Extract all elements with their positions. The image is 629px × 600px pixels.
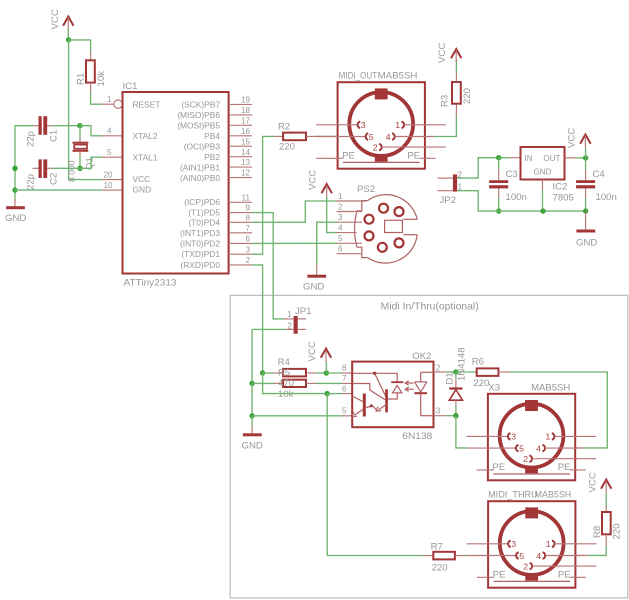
wire junction to XTAL1 pin 5 xyxy=(80,157,102,168)
svg-text:1: 1 xyxy=(458,182,463,191)
power VCC (above PS2) xyxy=(308,170,332,198)
node junction JP1 rail/R5 xyxy=(249,381,254,386)
wire R8 to MIDI THRU pin 4 xyxy=(605,534,607,546)
svg-text:(AIN1)PB1: (AIN1)PB1 xyxy=(180,162,220,172)
svg-text:3: 3 xyxy=(338,213,343,222)
svg-text:15: 15 xyxy=(241,137,251,146)
svg-text:8.000: 8.000 xyxy=(67,160,77,182)
svg-text:9: 9 xyxy=(245,204,250,213)
svg-text:(OCI)PB3: (OCI)PB3 xyxy=(184,141,221,151)
wire RXD to OK2 pin 6 xyxy=(263,373,328,394)
svg-text:JP1: JP1 xyxy=(295,306,312,317)
svg-text:C3: C3 xyxy=(506,169,518,180)
svg-text:IC1: IC1 xyxy=(123,81,138,92)
node junction rail/7805 GND xyxy=(540,208,545,213)
wire junction to XTAL2 pin 4 xyxy=(80,126,102,136)
svg-text:GND: GND xyxy=(133,185,152,195)
IC1 left pin names xyxy=(133,100,161,195)
svg-text:R2: R2 xyxy=(278,122,290,133)
wire C3 to ground rail xyxy=(498,188,500,199)
svg-text:R5: R5 xyxy=(278,367,290,378)
svg-text:R7: R7 xyxy=(431,542,443,553)
wire junction down to C3 xyxy=(498,158,500,170)
svg-text:MAB5SH: MAB5SH xyxy=(378,71,418,82)
svg-text:GND: GND xyxy=(303,282,324,293)
svg-text:2: 2 xyxy=(436,364,441,373)
wire VCC to PS2 pin 4 xyxy=(327,197,337,233)
wire junction to OK2 pin 8 xyxy=(326,372,342,374)
svg-text:GND: GND xyxy=(5,213,26,224)
svg-text:5: 5 xyxy=(338,234,343,243)
wire C1 to XTAL2 junction xyxy=(53,125,80,127)
node junction pin5/GND xyxy=(249,413,254,418)
wire VCC to junction xyxy=(67,29,69,40)
svg-text:1: 1 xyxy=(107,95,112,104)
svg-text:19: 19 xyxy=(241,96,251,105)
svg-text:22p: 22p xyxy=(26,131,37,147)
node junction VCC/R1 xyxy=(66,37,71,42)
svg-text:10k: 10k xyxy=(96,71,107,87)
node junction OUT/C4/VCC xyxy=(583,155,588,160)
connector JP1 jumper xyxy=(285,306,312,334)
svg-text:VCC: VCC xyxy=(308,170,319,190)
diode D1 1N4148 xyxy=(444,347,467,415)
svg-text:PB4: PB4 xyxy=(204,131,220,141)
wire junction to OK2 pin 6 xyxy=(327,393,342,395)
wire R3 top to VCC xyxy=(455,73,457,83)
svg-text:(TXD)PD1: (TXD)PD1 xyxy=(181,249,220,259)
node junction rail/C3 xyxy=(496,208,501,213)
svg-text:PB2: PB2 xyxy=(204,152,220,162)
ground GND (OK2) xyxy=(242,416,263,452)
wire R2 to MIDI OUT pin 5 xyxy=(306,135,317,137)
svg-text:ATTiny2313: ATTiny2313 xyxy=(124,278,177,289)
wire VCC to junction xyxy=(585,148,587,159)
svg-text:OK2: OK2 xyxy=(412,351,431,362)
svg-text:12: 12 xyxy=(241,169,251,178)
wire junction to OK2 pin 5 xyxy=(252,415,342,417)
svg-text:GND: GND xyxy=(242,441,263,452)
node optional section frame xyxy=(230,295,628,598)
wire rail to IC1 pin 10 xyxy=(15,189,102,191)
wire PS2 pin 3 to GND xyxy=(317,222,337,265)
node junction pin3/D1/X3 xyxy=(453,413,458,418)
svg-text:100n: 100n xyxy=(506,192,527,203)
svg-text:D1: D1 xyxy=(444,372,455,384)
node junction VCC/R4/pin8 xyxy=(324,370,329,375)
resistor R4 xyxy=(278,357,306,377)
svg-text:OUT: OUT xyxy=(543,154,560,163)
node junction pin6/THRU tap xyxy=(325,391,330,396)
connector MIDI_THRU MAB5SH xyxy=(467,489,597,587)
svg-text:XTAL1: XTAL1 xyxy=(133,152,158,162)
wire JP2 pin 1 to ground rail xyxy=(457,191,585,211)
svg-text:VCC: VCC xyxy=(50,9,61,29)
IC1 right pin names xyxy=(177,100,220,270)
svg-text:4: 4 xyxy=(338,223,343,232)
svg-text:R6: R6 xyxy=(472,357,484,368)
svg-text:100n: 100n xyxy=(596,192,617,203)
svg-text:VCC: VCC xyxy=(307,341,318,361)
svg-text:(T0)PD4: (T0)PD4 xyxy=(188,217,220,227)
svg-text:(INT1)PD3: (INT1)PD3 xyxy=(180,228,220,238)
optocoupler OK2 6N138 xyxy=(342,351,441,442)
wire PD4 to PS2 pin 1 xyxy=(252,201,337,222)
svg-text:XTAL2: XTAL2 xyxy=(133,131,158,141)
ground GND (left rail) xyxy=(5,199,26,224)
svg-text:1: 1 xyxy=(338,192,343,201)
svg-text:GND: GND xyxy=(576,238,597,249)
pin 1 stub with inversion bubble xyxy=(102,95,123,108)
svg-text:14: 14 xyxy=(241,148,251,157)
resistor R1 xyxy=(76,60,108,86)
svg-text:6N138: 6N138 xyxy=(402,431,432,442)
svg-text:MAB5SH: MAB5SH xyxy=(535,489,572,500)
wire junction down to X3 pin 5 xyxy=(456,416,466,448)
wire 7805 GND pin to rail xyxy=(542,180,544,191)
wire R4 to VCC junction xyxy=(306,372,316,374)
svg-text:(RXD)PD0: (RXD)PD0 xyxy=(180,260,220,270)
svg-text:R8: R8 xyxy=(592,526,603,538)
wire MIDI OUT pin 4 to R3 xyxy=(434,115,456,137)
node junction rail/C4/GND xyxy=(583,208,588,213)
svg-text:3: 3 xyxy=(436,407,441,416)
svg-text:R4: R4 xyxy=(278,357,291,368)
svg-text:GND: GND xyxy=(534,168,552,177)
wire THRU tap down to R7 xyxy=(327,394,423,556)
resistor R7 xyxy=(431,542,455,574)
svg-text:6: 6 xyxy=(342,384,347,393)
voltage regulator IC2 7805 xyxy=(521,147,574,204)
svg-text:7805: 7805 xyxy=(553,193,574,204)
wire JP1 rail down to OK2 pin 5 junction xyxy=(251,383,253,415)
ground GND (below PS2) xyxy=(303,275,326,293)
svg-text:R3: R3 xyxy=(440,95,451,107)
node junction XTAL1/C2/Q1 xyxy=(77,166,82,171)
wire C2 to junction xyxy=(53,167,80,169)
node junction rail/GND pin 10 xyxy=(12,187,17,192)
wire junction to R4 xyxy=(263,372,274,374)
power VCC (above R8) xyxy=(588,472,612,493)
svg-text:7: 7 xyxy=(245,224,250,233)
svg-text:VCC: VCC xyxy=(588,472,599,492)
svg-text:6: 6 xyxy=(338,245,343,254)
wire OK2 pin 2 to D1 junction xyxy=(434,371,446,373)
svg-text:1N4148: 1N4148 xyxy=(457,347,468,381)
wire R6 to X3 pin 4 xyxy=(498,371,510,373)
svg-text:(AIN0)PB0: (AIN0)PB0 xyxy=(180,173,220,183)
svg-text:VCC: VCC xyxy=(567,128,578,148)
wire C4 to rail xyxy=(585,188,587,199)
svg-text:MAB5SH: MAB5SH xyxy=(531,383,570,394)
resistor R6 xyxy=(472,357,499,390)
power VCC (above C4) xyxy=(567,128,591,148)
wire VCC to R8 xyxy=(605,493,607,507)
svg-text:470: 470 xyxy=(278,378,294,389)
svg-text:220: 220 xyxy=(612,523,623,539)
wire R1 bottom to IC1 pin 1 xyxy=(90,83,92,94)
wire VCC to junction xyxy=(325,362,327,373)
svg-text:R1: R1 xyxy=(76,73,87,85)
svg-text:(ICP)PD6: (ICP)PD6 xyxy=(184,197,220,207)
node junction pin2/D1/R6 xyxy=(453,369,458,374)
capacitor C3 xyxy=(489,169,527,203)
svg-text:5: 5 xyxy=(107,148,112,157)
connector MIDI_OUT MAB5SH xyxy=(316,71,446,169)
svg-text:22p: 22p xyxy=(26,174,37,190)
wire junction to R6 xyxy=(456,371,476,373)
svg-text:4: 4 xyxy=(107,127,112,136)
wire junction to R1 top xyxy=(69,40,91,52)
wire left rail to C1 xyxy=(15,126,33,200)
resistor R2 xyxy=(278,122,306,153)
svg-text:20: 20 xyxy=(104,171,114,180)
wire R5 to OK2 pin 7 xyxy=(306,382,316,384)
svg-text:13: 13 xyxy=(241,158,251,167)
svg-text:18: 18 xyxy=(241,106,251,115)
svg-text:220: 220 xyxy=(279,142,295,153)
svg-text:MIDI_THRU: MIDI_THRU xyxy=(488,489,538,500)
wire junction to R5 xyxy=(252,382,274,384)
wire PD5 down to JP1 pin 1 xyxy=(252,213,285,319)
svg-text:7: 7 xyxy=(342,374,347,383)
wire crystal to XTAL1 junction xyxy=(79,151,81,155)
svg-text:IC2: IC2 xyxy=(553,182,568,193)
svg-text:VCC: VCC xyxy=(133,174,151,184)
IC1 right pin stubs PB7-PB0 xyxy=(229,104,252,265)
resistor R8 xyxy=(592,512,623,540)
svg-text:C1: C1 xyxy=(49,130,60,142)
svg-text:220: 220 xyxy=(432,563,448,574)
power VCC (above OK2) xyxy=(307,341,331,362)
connector X3 MAB5SH xyxy=(467,383,597,481)
svg-text:(INT0)PD2: (INT0)PD2 xyxy=(180,238,220,248)
connector PS2 mini-DIN xyxy=(337,184,418,263)
svg-text:Midi In/Thru(optional): Midi In/Thru(optional) xyxy=(381,302,479,313)
svg-text:C4: C4 xyxy=(593,169,606,180)
wire junction down to C4 xyxy=(585,158,587,171)
svg-text:1: 1 xyxy=(287,310,292,319)
svg-text:11: 11 xyxy=(242,193,251,202)
capacitor C4 xyxy=(576,169,617,203)
IC1 right pin numbers xyxy=(241,96,251,266)
wire PD0 RXD down to R4 junction xyxy=(252,265,263,373)
svg-text:(SCK)PB7: (SCK)PB7 xyxy=(181,100,220,110)
svg-text:C2: C2 xyxy=(49,173,60,185)
svg-text:2: 2 xyxy=(245,256,250,265)
power VCC (top left) xyxy=(50,9,74,30)
resistor R3 xyxy=(440,82,474,107)
svg-text:10k: 10k xyxy=(278,389,294,400)
svg-text:8: 8 xyxy=(245,213,250,222)
node junction RXD/R4 xyxy=(260,370,265,375)
svg-text:RESET: RESET xyxy=(133,100,161,110)
wire PD2 to PS2 pin 5 xyxy=(252,242,337,244)
svg-text:X3: X3 xyxy=(488,383,500,394)
capacitor C2 xyxy=(26,159,60,190)
svg-text:6: 6 xyxy=(245,235,250,244)
connector JP2 jumper xyxy=(438,170,463,206)
wire R7 to MIDI THRU pin 5 xyxy=(455,555,465,557)
svg-text:220: 220 xyxy=(462,88,473,104)
resistor R5 xyxy=(278,367,306,400)
svg-text:5: 5 xyxy=(342,407,347,416)
svg-text:PS2: PS2 xyxy=(357,184,375,195)
svg-text:8: 8 xyxy=(342,364,347,373)
node junction IN/C3 xyxy=(496,155,501,160)
wire JP2 pin 2 to 7805 IN xyxy=(457,158,499,178)
svg-text:16: 16 xyxy=(241,127,251,136)
capacitor C1 xyxy=(26,116,60,147)
svg-text:VCC: VCC xyxy=(437,43,448,63)
wire MIDI OUT PE stub xyxy=(316,157,327,159)
node junction rail/C2 xyxy=(12,166,17,171)
wire VCC rail down to pin 20 xyxy=(69,40,102,180)
wire OUT pin to junction xyxy=(565,157,577,159)
power VCC (above R3) xyxy=(437,43,461,63)
ground GND (7805) xyxy=(576,211,597,248)
op-amp IC1 ATTiny2313 body xyxy=(123,81,229,289)
wire PD1 TXD up to R2 xyxy=(252,136,274,254)
svg-text:17: 17 xyxy=(241,116,251,125)
wire junction to IN pin xyxy=(499,157,511,159)
svg-text:MIDI_OUT: MIDI_OUT xyxy=(339,71,378,82)
node junction XTAL2/C1/Q1 xyxy=(77,123,82,128)
wire JP1 pin 2 down left rail xyxy=(252,329,285,383)
svg-text:2: 2 xyxy=(287,321,292,330)
svg-text:220: 220 xyxy=(473,378,489,389)
svg-text:3: 3 xyxy=(245,245,250,254)
svg-text:JP2: JP2 xyxy=(440,195,457,206)
svg-text:2: 2 xyxy=(338,202,343,211)
svg-text:(MISO)PB6: (MISO)PB6 xyxy=(177,110,220,120)
crystal Q1 xyxy=(67,143,96,182)
svg-text:(T1)PD5: (T1)PD5 xyxy=(188,208,220,218)
wire junction to crystal xyxy=(79,126,81,139)
svg-text:10: 10 xyxy=(104,181,114,190)
svg-text:IN: IN xyxy=(525,154,533,163)
svg-text:(MOSI)PB5: (MOSI)PB5 xyxy=(177,121,220,131)
wire OK2 pin 3 to junction xyxy=(434,415,446,417)
